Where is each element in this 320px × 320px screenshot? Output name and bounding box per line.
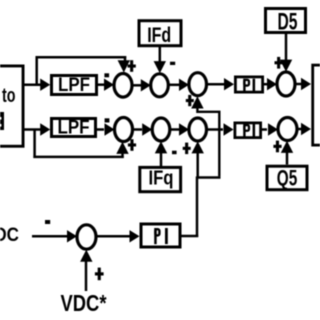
wire S2 to S3 [168, 79, 189, 91]
plus sign bypass d [128, 60, 136, 72]
wire Vdc feedback to S7 [192, 141, 221, 177]
wire LPF1 to S1 [98, 79, 114, 91]
summing junction S8 q-axis [278, 118, 297, 141]
svg-text:VDC*: VDC* [61, 290, 107, 316]
wire S1 to S2 [132, 79, 151, 91]
IFq box [140, 167, 181, 191]
plus sign S7 bottom [183, 143, 191, 155]
summing junction S4 d-axis [277, 72, 295, 96]
svg-text:Q5: Q5 [277, 165, 298, 190]
plus sign D5 [275, 57, 283, 69]
summing junction S3 d-axis [189, 73, 207, 96]
PI3 box [141, 224, 180, 247]
svg-text:VDC: VDC [0, 225, 19, 246]
wire Vdc feedback to S3 [191, 96, 219, 176]
svg-text:IFq: IFq [149, 168, 174, 190]
PI1 box [235, 77, 262, 92]
plus sign S3 bottom [186, 95, 194, 106]
wire bypass d-axis [36, 56, 131, 85]
Q5 box [267, 165, 307, 190]
plus sign bypass q [128, 139, 136, 151]
svg-text:to: to [2, 85, 16, 107]
wire PI1 to S4 [264, 78, 277, 90]
wire S4 to output block [295, 78, 311, 90]
summing junction S9 vdc [77, 225, 96, 249]
wire PI3 output riser [182, 176, 199, 237]
summing junction S7 q-axis [189, 118, 207, 141]
wire S7 to PI2 [207, 123, 234, 135]
summing junction S6 q-axis [152, 118, 170, 141]
wire IFd to S2 [154, 47, 166, 73]
LPF1 box [52, 75, 97, 96]
PI2 box [235, 123, 261, 138]
minus sign IFq [172, 151, 177, 155]
svg-text:LPF: LPF [58, 75, 90, 96]
wire S5 to S6 [133, 123, 153, 135]
minus sign VDC [45, 220, 50, 224]
wire S3 to PI1 [207, 78, 235, 90]
wire block to LPF2 [24, 123, 50, 135]
wire S8 to output block [297, 123, 311, 135]
wire bypass q-axis [33, 130, 128, 159]
wire VDC to S9 [32, 230, 77, 242]
minus sign LPF1 [104, 73, 109, 77]
wire PI2 to S8 [262, 123, 278, 135]
plus sign Q5 [273, 141, 281, 153]
summing junction S5 q-axis [115, 118, 133, 142]
output block right [313, 65, 320, 145]
wire D5 to S4 [280, 34, 292, 72]
wire Q5 to S8 [281, 141, 293, 165]
svg-text:LPF: LPF [58, 118, 90, 139]
wire block to LPF1 [24, 79, 50, 91]
summing junction S2 d-axis [151, 74, 169, 97]
minus sign LPF2 [105, 118, 110, 122]
minus sign IFd [170, 62, 175, 65]
wire VDC* to S9 [80, 250, 92, 291]
wire LPF2 to S5 [97, 123, 115, 135]
D5 box [266, 8, 306, 35]
block abc-to-dq [0, 66, 23, 146]
summing junction S1 d-axis [114, 74, 132, 98]
IFd box [139, 21, 181, 47]
plus sign VDC* [95, 268, 104, 281]
wire S6 to S7 [170, 123, 189, 135]
wire S9 to PI3 [96, 230, 140, 242]
wire IFq to S6 [155, 141, 167, 166]
svg-text:D5: D5 [278, 8, 298, 35]
LPF2 box [52, 118, 96, 139]
svg-text:IFd: IFd [147, 24, 171, 47]
